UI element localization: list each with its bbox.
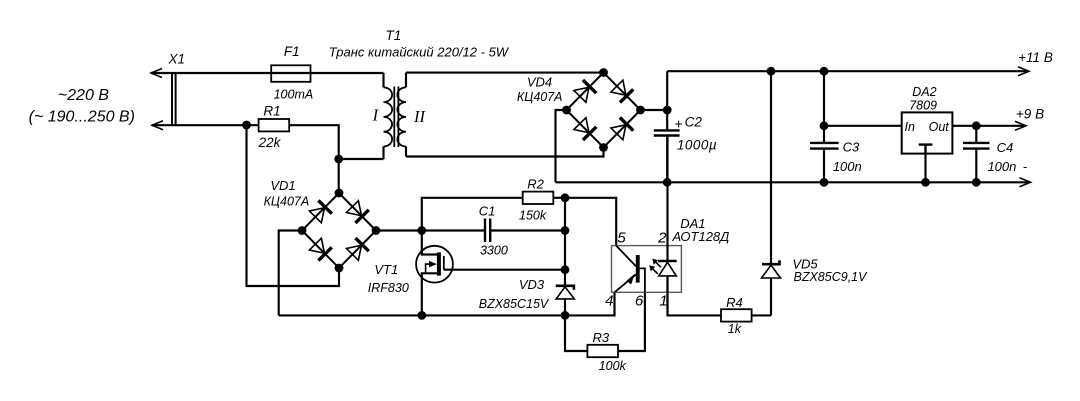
wire: VD5 bottom to R4 — [751, 314, 772, 316]
input arrow top — [151, 69, 162, 78]
svg-text:R1: R1 — [263, 103, 280, 118]
svg-text:VT1: VT1 — [374, 262, 398, 277]
DA2 ground symbol — [919, 145, 933, 154]
wire: secondary top to VD4 — [406, 72, 604, 74]
svg-text:КЦ407А: КЦ407А — [517, 90, 563, 104]
svg-text:22k: 22k — [258, 135, 282, 150]
svg-text:IRF830: IRF830 — [368, 281, 409, 295]
wire: VD5 branch from +11V rail — [770, 71, 772, 264]
node VD1 left — [298, 226, 307, 235]
svg-text:C2: C2 — [685, 114, 703, 129]
output arrow +9V — [1015, 121, 1026, 130]
junction: X1 bottom / R1 / VD1-bottom branch — [242, 121, 251, 130]
svg-text:5: 5 — [617, 229, 626, 246]
svg-text:150k: 150k — [519, 208, 547, 222]
svg-text:100mA: 100mA — [274, 88, 314, 102]
junction: VD4 right / C2 top — [663, 106, 672, 115]
svg-text:КЦ407А: КЦ407А — [264, 195, 310, 209]
wire: gate line to VD3 node — [444, 269, 565, 271]
fuse F1 — [271, 65, 310, 82]
junction: C3 bottom / minus rail — [820, 178, 829, 187]
diode VD4 bottom-right — [610, 117, 633, 140]
resistor R1 — [259, 119, 290, 131]
svg-text:100k: 100k — [599, 359, 627, 373]
wire: top AC line from X1 to transformer primary — [151, 72, 384, 74]
zener VD5 — [762, 260, 781, 315]
svg-text:1: 1 — [659, 292, 667, 309]
junction: DA2 ground / minus rail — [921, 178, 930, 187]
wire: DA2 Out to +9V arrow — [952, 125, 1025, 127]
diode bridge VD4 frame — [567, 73, 641, 148]
transformer T1 primary winding — [384, 73, 393, 159]
DA1 LED arrow 2 — [649, 265, 658, 274]
junction: R2 / VD3 line / DA1 pin5 — [561, 193, 570, 202]
svg-text:Транс китайский 220/12 - 5W: Транс китайский 220/12 - 5W — [329, 45, 510, 60]
svg-text:АОТ128Д: АОТ128Д — [671, 229, 729, 244]
output arrow minus rail — [1020, 178, 1031, 187]
svg-text:C3: C3 — [843, 139, 860, 154]
svg-text:VD4: VD4 — [527, 75, 552, 90]
node VD4 right — [636, 106, 645, 115]
wire: VD1 right node to VT1 drain junction — [376, 229, 422, 231]
wire: secondary bottom to VD4 bottom stub — [406, 148, 604, 157]
wire: R4 left to DA1 pin1 — [668, 276, 722, 316]
svg-text:4: 4 — [605, 292, 613, 309]
svg-text:3300: 3300 — [480, 243, 508, 257]
node VD1 top — [335, 189, 344, 198]
svg-text:+: + — [674, 115, 682, 131]
wire: C3 to DA2 In — [824, 125, 902, 127]
input arrow bottom — [152, 121, 163, 130]
diode VD4 top-right — [610, 79, 633, 102]
DA1 phototransistor — [615, 246, 645, 293]
svg-text:R3: R3 — [592, 330, 609, 345]
diode VD4 bottom-left — [573, 117, 596, 140]
svg-text:R2: R2 — [527, 176, 544, 191]
wire: VD3 branch line — [564, 198, 566, 286]
connector X1 pins — [172, 72, 176, 126]
voltage regulator DA2 box — [902, 112, 953, 153]
wire: +11V rail — [667, 70, 1028, 72]
svg-text:2: 2 — [657, 229, 667, 246]
svg-text:-: - — [1023, 160, 1027, 174]
capacitor C4 — [963, 126, 990, 183]
diode VD1 bottom-left — [309, 237, 332, 260]
wire: DA2 ground to minus rail — [924, 154, 926, 183]
svg-text:+9 В: +9 В — [1016, 107, 1044, 122]
DA1 LED — [658, 136, 677, 316]
diode VD1 bottom-right — [346, 238, 369, 261]
svg-text:BZX85C9,1V: BZX85C9,1V — [794, 270, 869, 284]
svg-text:100n: 100n — [833, 159, 862, 174]
capacitor C1 — [422, 219, 565, 243]
junction: +11V rail / VD5 — [767, 67, 776, 76]
resistor R4 — [721, 309, 752, 321]
wire: R3 left leg — [565, 315, 587, 351]
wire: drain up to R2 — [422, 198, 523, 231]
node VD1 right — [372, 226, 381, 235]
transistor VT1 (MOSFET) — [416, 231, 453, 316]
diode bridge VD1 frame — [302, 193, 376, 268]
svg-text:C1: C1 — [479, 203, 496, 218]
svg-text:C4: C4 — [997, 140, 1014, 155]
svg-text:(~ 190...250 В): (~ 190...250 В) — [29, 109, 135, 126]
svg-text:100n: 100n — [987, 159, 1016, 174]
junction: DA2 Out / C4 — [972, 121, 981, 130]
svg-text:6: 6 — [635, 292, 644, 309]
wire: bottom AC line from X1 through R1 position, down to primary bottom — [152, 125, 339, 159]
svg-text:~220 В: ~220 В — [58, 87, 109, 104]
svg-text:VD1: VD1 — [270, 178, 295, 193]
junction: C1 right / VD3 line — [561, 226, 570, 235]
transformer T1 secondary winding — [397, 73, 406, 157]
wire: source line (VD1 left to DA1 pin4) — [279, 292, 615, 315]
wire: VD4 left node down to minus rail — [556, 110, 567, 182]
svg-text:DA2: DA2 — [912, 85, 936, 99]
capacitor C2 — [654, 71, 680, 182]
optocoupler DA1 box — [612, 246, 682, 293]
diode VD1 top-right — [346, 200, 369, 223]
svg-text:7809: 7809 — [909, 98, 937, 112]
svg-text:F1: F1 — [284, 44, 300, 59]
svg-text:T1: T1 — [386, 28, 402, 43]
resistor R3 — [587, 345, 618, 357]
wire: VD4 right node to C2 — [641, 109, 668, 111]
junction: C4 bottom / minus rail — [972, 178, 981, 187]
wire: primary bottom to junction — [339, 158, 384, 160]
wire: R3 right to DA1 pin6 — [618, 292, 645, 351]
junction: gate line / VD3 line — [561, 265, 570, 274]
svg-text:R4: R4 — [726, 295, 743, 310]
svg-text:1000µ: 1000µ — [677, 138, 717, 153]
zener VD3 — [556, 286, 575, 316]
diode VD4 top-left — [573, 80, 596, 103]
junction: C3 / DA2 In — [820, 121, 829, 130]
svg-text:Out: Out — [929, 120, 950, 134]
diode VD1 top-left — [309, 200, 332, 223]
wire: VD1 left node to source line — [279, 231, 302, 316]
wire: node to DA1 pin5 — [565, 198, 616, 246]
svg-text:VD3: VD3 — [519, 277, 545, 292]
junction: primary bottom / R1 / VD1 top — [334, 155, 343, 164]
node VD4 bottom — [599, 143, 608, 152]
node VD4 left — [562, 106, 571, 115]
wire: minus rail — [556, 181, 1030, 183]
junction: source line / VT1 source — [417, 311, 426, 320]
wire: R2 right to node — [553, 197, 565, 199]
wire: VD1 top stub — [338, 159, 340, 193]
wire: VD1 bottom node to X1 bottom junction — [247, 125, 340, 286]
svg-text:+11 В: +11 В — [1018, 50, 1053, 65]
svg-text:BZX85C15V: BZX85C15V — [479, 297, 550, 311]
junction: C2 bottom / minus rail / DA1 pin2 — [663, 178, 672, 187]
svg-text:1k: 1k — [728, 322, 742, 336]
capacitor C3 — [810, 71, 839, 182]
transformer T1 core — [394, 87, 398, 148]
svg-text:X1: X1 — [168, 52, 186, 67]
svg-text:In: In — [905, 120, 915, 134]
svg-text:II: II — [413, 107, 426, 126]
node VD1 bottom — [335, 264, 344, 273]
resistor R2 — [523, 192, 554, 204]
node VD4 top — [599, 68, 608, 77]
DA1 LED arrow 1 — [652, 259, 661, 268]
junction: source line / VD3 / R3 / pin4 — [561, 311, 570, 320]
output arrow +11V — [1018, 67, 1029, 76]
junction: drain / R2 / C1 — [417, 226, 426, 235]
junction: +11V rail / C3 — [820, 67, 829, 76]
